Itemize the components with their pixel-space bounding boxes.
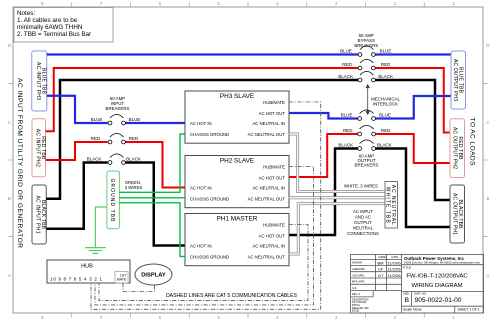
svg-text:CF: CF: [378, 267, 384, 272]
svg-text:11/2/06: 11/2/06: [388, 260, 402, 265]
inverter PH1 MASTER: [185, 214, 289, 266]
wire green to PH1 chassis ground: [119, 203, 185, 257]
terminal AC INPUT PH1 BLACK TBB: [32, 185, 46, 244]
svg-text:AC INPUT FROM UTILITY GRID OR: AC INPUT FROM UTILITY GRID OR GENERATOR: [16, 78, 23, 248]
svg-text:Notes:: Notes:: [17, 10, 35, 17]
svg-text:BLUE: BLUE: [380, 49, 392, 54]
svg-text:TITLE:: TITLE:: [403, 265, 412, 269]
svg-text:AC HOT IN: AC HOT IN: [190, 185, 212, 190]
wire black bypass from input TBB to bypass breaker: [46, 80, 358, 199]
svg-text:BLACK TBB: BLACK TBB: [457, 200, 463, 230]
svg-text:BLACK: BLACK: [126, 157, 141, 162]
breaker CB bypass red: [358, 59, 375, 70]
wire blue output from breaker to output TBB: [375, 96, 451, 119]
inverter PH3 SLAVE: [185, 91, 289, 143]
svg-text:HUB/MATE: HUB/MATE: [263, 222, 285, 227]
svg-text:A: A: [8, 273, 11, 278]
svg-text:2. TBB = Terminal Bus Bar: 2. TBB = Terminal Bus Bar: [17, 31, 91, 38]
cat5 comm wire PH2 to hub pin2: [95, 167, 314, 305]
label AC INPUT AND AC OUTPUT NEUTRAL CONNECTIONS: [347, 209, 379, 236]
svg-text:AC NEUTRAL OUT: AC NEUTRAL OUT: [248, 132, 286, 137]
svg-text:INTERLOCK: INTERLOCK: [373, 101, 398, 106]
svg-text:NEUTRAL: NEUTRAL: [353, 226, 374, 231]
60 AMP BYPASS BREAKERS label: [354, 33, 378, 48]
svg-text:BLACK: BLACK: [87, 157, 102, 162]
svg-text:OUTPUT: OUTPUT: [354, 220, 372, 225]
svg-text:C: C: [8, 120, 11, 125]
svg-text:1. All cables are to be: 1. All cables are to be: [17, 17, 78, 24]
terminal AC OUTPUT PH2 RED TBB: [450, 119, 465, 178]
terminal AC OUTPUT PH1 BLACK TBB: [450, 185, 465, 243]
wire black input from TBB to input breaker: [46, 163, 107, 229]
svg-text:WHITE TBB: WHITE TBB: [385, 187, 391, 224]
svg-text:AC INPUT PH1: AC INPUT PH1: [35, 196, 41, 234]
svg-text:AC INPUT: AC INPUT: [353, 209, 373, 214]
HUB box: [47, 260, 130, 283]
svg-text:PH3 SLAVE: PH3 SLAVE: [220, 93, 254, 100]
svg-text:CHECKED: CHECKED: [352, 267, 365, 271]
svg-text:DATE: DATE: [392, 255, 399, 259]
svg-text:GROUND TBB: GROUND TBB: [109, 179, 115, 223]
svg-text:Scale None: Scale None: [403, 308, 422, 312]
svg-text:BLUE TBB: BLUE TBB: [458, 67, 464, 94]
svg-text:D: D: [486, 43, 489, 48]
svg-text:SHEET 1 OF 1: SHEET 1 OF 1: [458, 308, 480, 312]
wire red output from PH2 AC HOT OUT to output breaker: [289, 134, 358, 177]
wire green to PH3 chassis ground: [119, 134, 185, 192]
svg-text:B: B: [8, 196, 11, 201]
svg-text:BLACK: BLACK: [377, 143, 392, 148]
svg-text:BLACK TBB: BLACK TBB: [40, 200, 46, 230]
mechanical interlock arrow: [366, 85, 369, 115]
svg-text:RED: RED: [343, 128, 353, 133]
title block: [351, 254, 484, 313]
label GREEN, 3 WIRES: [125, 180, 143, 190]
ground symbol: [85, 248, 106, 254]
breaker CB input black: [108, 154, 125, 165]
svg-text:AC OUTPUT PH3: AC OUTPUT PH3: [452, 59, 458, 101]
svg-text:BLUE: BLUE: [341, 113, 353, 118]
svg-text:B: B: [405, 297, 410, 304]
svg-text:CHASSIS GROUND: CHASSIS GROUND: [190, 254, 229, 259]
svg-text:HUB: HUB: [81, 264, 93, 270]
svg-text:BLACK: BLACK: [378, 74, 393, 79]
wire blue bypass from input TBB to bypass breaker: [47, 53, 358, 55]
svg-text:11/2/06: 11/2/06: [388, 267, 402, 272]
svg-text:BLUE: BLUE: [379, 113, 391, 118]
wire black output from PH1 AC HOT OUT to output breaker: [289, 149, 358, 236]
neutral wire PH2: [289, 196, 385, 199]
terminal AC INPUT PH2 RED TBB: [32, 119, 46, 177]
svg-text:RED: RED: [129, 136, 139, 141]
wire red bypass from breaker to output TBB: [375, 68, 450, 133]
breaker CB output blue: [358, 110, 376, 121]
svg-text:BM: BM: [378, 260, 384, 265]
svg-text:RED TBB: RED TBB: [40, 136, 46, 160]
svg-text:AC OUTPUT PH1: AC OUTPUT PH1: [452, 193, 458, 235]
svg-text:Q.A.: Q.A.: [352, 286, 357, 290]
breaker CB output black: [358, 140, 376, 151]
svg-text:BLUE TBB: BLUE TBB: [40, 68, 46, 95]
wire red bypass from input TBB to bypass breaker: [46, 68, 359, 131]
svg-text:NAME: NAME: [379, 255, 387, 259]
wire blue bypass from breaker to output TBB: [375, 53, 451, 55]
svg-text:CAD APPL: CAD APPL: [352, 273, 365, 277]
svg-text:3 WIRES: 3 WIRES: [125, 185, 143, 190]
svg-text:19009 62nd Ave. NE Arlington,: 19009 62nd Ave. NE Arlington, WA 98223 w…: [404, 262, 480, 265]
wire red output from breaker to output TBB: [375, 134, 450, 163]
svg-text:AC NEUTRAL IN: AC NEUTRAL IN: [252, 185, 285, 190]
wire red input from breaker to PH2 AC HOT IN: [125, 142, 185, 188]
svg-text:PH2 SLAVE: PH2 SLAVE: [220, 158, 254, 165]
svg-text:GT: GT: [378, 273, 384, 278]
svg-text:RED TBB: RED TBB: [457, 137, 463, 161]
breaker CB bypass blue: [358, 46, 375, 57]
60 AMP OUTPUT BREAKERS label: [355, 154, 379, 168]
terminal AC INPUT PH3 BLUE TBB: [32, 51, 47, 111]
svg-text:DISPLAY: DISPLAY: [141, 273, 166, 279]
notes box: [14, 8, 113, 43]
svg-text:DRAWN: DRAWN: [352, 261, 362, 265]
svg-text:AC NEUTRAL IN: AC NEUTRAL IN: [252, 243, 285, 248]
svg-text:DASHED LINES ARE CAT 5 COMMUNI: DASHED LINES ARE CAT 5 COMMUNICATION CAB…: [166, 293, 298, 299]
mechanical interlock label: [371, 97, 400, 107]
svg-text:HUB/MATE: HUB/MATE: [263, 164, 285, 169]
breaker CB bypass black: [358, 71, 375, 82]
svg-text:BLUE: BLUE: [340, 49, 352, 54]
svg-text:MATE: MATE: [117, 278, 127, 282]
wire black input from breaker to PH1 AC HOT IN: [125, 163, 185, 246]
svg-text:CONNECTIONS: CONNECTIONS: [347, 231, 379, 236]
svg-text:AC OUTPUT PH2: AC OUTPUT PH2: [452, 127, 458, 169]
DISPLAY: [135, 264, 172, 285]
svg-text:WIRING DIAGRAM: WIRING DIAGRAM: [411, 283, 462, 289]
terminal GROUND TBB: [107, 171, 120, 229]
svg-text:AC HOT IN: AC HOT IN: [190, 243, 212, 248]
svg-text:B: B: [487, 196, 490, 201]
svg-text:AC NEUTRAL IN: AC NEUTRAL IN: [252, 121, 285, 126]
breaker CB input blue: [108, 114, 125, 125]
svg-text:C: C: [486, 120, 489, 125]
svg-text:HUB/MATE: HUB/MATE: [263, 100, 285, 105]
svg-text:minimally 6AWG THHN: minimally 6AWG THHN: [17, 24, 83, 31]
svg-text:CHASSIS GROUND: CHASSIS GROUND: [190, 196, 229, 201]
svg-text:BLACK: BLACK: [338, 143, 353, 148]
wire blue input from TBB to input breaker: [47, 96, 108, 123]
wire blue input from breaker to PH3 AC HOT IN: [125, 122, 185, 124]
input breaker wire labels: [87, 117, 141, 162]
svg-text:905-0022-01-00: 905-0022-01-00: [415, 297, 462, 304]
wire green to ground symbol: [95, 207, 107, 248]
svg-text:DWG. NO.: DWG. NO.: [414, 292, 427, 296]
svg-text:RED: RED: [342, 62, 352, 67]
svg-text:AC HOT OUT: AC HOT OUT: [259, 175, 286, 180]
svg-text:10 9 8 7 6 5 4 3 2 1: 10 9 8 7 6 5 4 3 2 1: [50, 277, 102, 282]
svg-text:CHASSIS GROUND: CHASSIS GROUND: [190, 132, 229, 137]
terminal AC NEUTRAL WHITE TBB: [385, 182, 398, 229]
svg-text:RED: RED: [381, 62, 391, 67]
wire blue output from PH3 AC HOT OUT to output breaker: [289, 113, 358, 119]
cat5 comm wire PH3 to hub pin3: [91, 102, 321, 309]
breaker CB output red: [358, 125, 376, 136]
svg-text:AND AC: AND AC: [355, 215, 371, 220]
wire black output from breaker to output TBB: [375, 149, 450, 228]
svg-text:MFG APPL: MFG APPL: [352, 280, 366, 284]
inverter PH2 SLAVE: [185, 156, 289, 208]
svg-text:BREAKERS: BREAKERS: [106, 106, 130, 111]
svg-text:PH1 MASTER: PH1 MASTER: [217, 216, 258, 223]
neutral wire PH1: [289, 204, 385, 254]
cat5 comm wire display to 1st mate: [123, 283, 155, 292]
wire red input from TBB to input breaker: [46, 142, 108, 160]
svg-text:AC HOT IN: AC HOT IN: [190, 121, 212, 126]
svg-text:Outback Power Systems, Inc: Outback Power Systems, Inc: [404, 256, 465, 261]
svg-text:A: A: [487, 273, 490, 278]
svg-text:11/2/06: 11/2/06: [388, 273, 402, 278]
svg-text:AC HOT OUT: AC HOT OUT: [259, 111, 286, 116]
terminal AC OUTPUT PH3 BLUE TBB: [451, 51, 466, 109]
wire green to PH2 chassis ground: [119, 197, 185, 199]
svg-text:EGGB: EGGB: [352, 310, 359, 313]
svg-text:AC INPUT PH3: AC INPUT PH3: [35, 62, 41, 100]
svg-text:AC HOT OUT: AC HOT OUT: [259, 233, 286, 238]
cat5 comm wire PH1 to hub pin1: [99, 225, 308, 301]
60 AMP INPUT BREAKERS label: [106, 96, 130, 111]
svg-text:BREAKERS: BREAKERS: [355, 163, 379, 168]
svg-text:BLUE: BLUE: [129, 117, 141, 122]
svg-text:AC NEUTRAL OUT: AC NEUTRAL OUT: [248, 254, 286, 259]
svg-text:REV. A: REV. A: [352, 292, 360, 296]
output breaker wire labels: [338, 113, 391, 148]
bypass breaker wire labels: [338, 49, 393, 80]
breaker CB input red: [108, 133, 125, 144]
svg-text:WHITE, 3 WIRES: WHITE, 3 WIRES: [344, 184, 378, 189]
svg-text:RED: RED: [381, 128, 391, 133]
svg-text:BLACK: BLACK: [338, 74, 353, 79]
svg-text:AC INPUT PH2: AC INPUT PH2: [35, 129, 41, 167]
svg-text:AC NEUTRAL OUT: AC NEUTRAL OUT: [248, 196, 286, 201]
svg-text:BLUE: BLUE: [91, 117, 103, 122]
svg-text:TO AC LOADS: TO AC LOADS: [469, 118, 476, 167]
svg-text:RED: RED: [91, 136, 101, 141]
svg-text:SIZE: SIZE: [403, 292, 409, 296]
neutral wires (white/gray hollow) PH3: [289, 134, 385, 192]
svg-text:D: D: [8, 43, 11, 48]
wire black bypass from breaker to output TBB: [375, 80, 450, 200]
svg-text:FW-IOB-T-120/208VAC: FW-IOB-T-120/208VAC: [406, 274, 468, 280]
